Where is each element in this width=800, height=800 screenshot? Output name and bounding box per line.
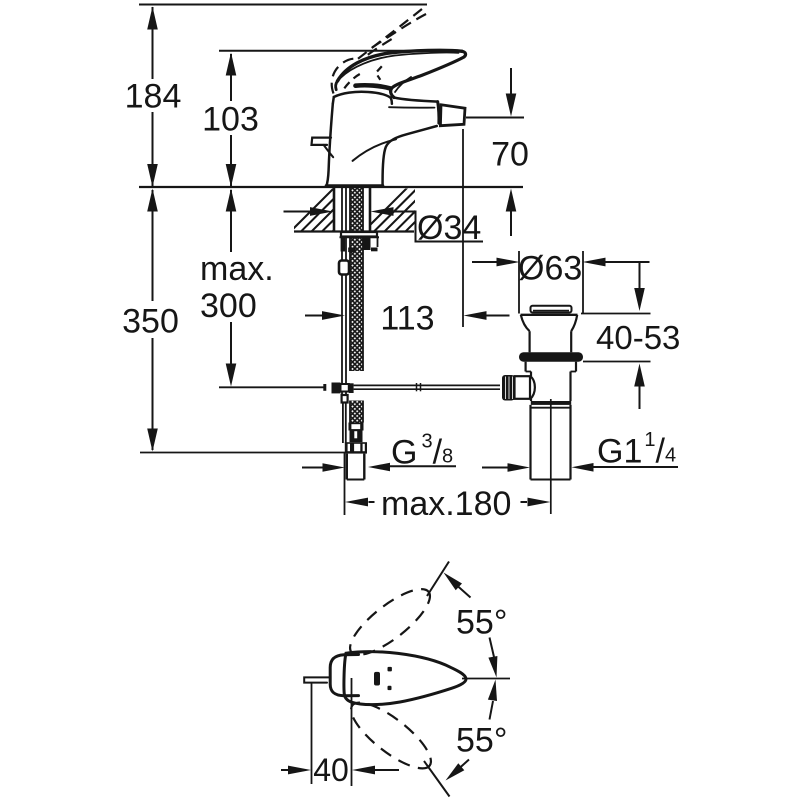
coupling black band [531, 401, 571, 405]
dim 40 left tail [281, 769, 289, 771]
dim 40-53 ref top [581, 313, 651, 315]
dashed raised handle small arc [344, 74, 360, 88]
faucet body group [312, 50, 466, 186]
dim Ø34 right tail and leader [394, 212, 484, 242]
arrow arc lower-a tip [488, 680, 497, 702]
adjuster knurled knob [502, 375, 515, 401]
dim 113 ext line [462, 129, 464, 327]
reference line spout top 103 [219, 50, 462, 52]
deck cross-section hatching left of hole [284, 186, 462, 238]
svg-text:G11/4: G11/4 [597, 429, 676, 471]
arrow 113 left-point [464, 311, 487, 320]
hose ferrule [349, 423, 364, 431]
arrow arc upper-b tip [488, 656, 497, 678]
dashed raised handle back arc [332, 59, 358, 94]
cap left side [333, 97, 334, 104]
arrow 40-53 down [634, 288, 645, 311]
dashed raised handle inner edge [368, 36, 397, 55]
dim G114 left tail [482, 467, 508, 469]
dim 40 right tail [375, 769, 399, 771]
dim 103 line lower [230, 135, 232, 187]
lever indicator dot lower [388, 686, 392, 690]
svg-text:max.: max. [200, 250, 274, 288]
arrow arc upper-a tip [444, 573, 463, 591]
arrow max300 down [226, 364, 237, 387]
svg-text:350: 350 [122, 303, 179, 341]
radial 55 line lower [424, 761, 450, 797]
svg-text:Ø34: Ø34 [417, 209, 481, 247]
below-deck faucet column [339, 188, 379, 480]
threaded shank textured [350, 188, 363, 371]
dashed swing ellipse upper [341, 579, 439, 665]
rod coupling ticks [416, 383, 418, 391]
rod left tip block [323, 384, 326, 391]
dim Ø63 left tail [472, 261, 498, 263]
lever indicator dot upper [388, 667, 392, 672]
dashed raised handle notch chevron [376, 66, 382, 80]
svg-text:40: 40 [313, 752, 349, 788]
flexible hose braided section [350, 401, 363, 423]
knob connector housing [515, 376, 531, 399]
ext line 40 right [351, 678, 353, 786]
arc segment upper-b [490, 638, 495, 658]
dim 40-53 bottom line [639, 387, 641, 410]
dimensions group [153, 7, 679, 515]
drain tube sides [529, 405, 531, 480]
arrow Ø34 right-point [310, 207, 333, 216]
arrow 70 down [506, 94, 517, 117]
coupling line [531, 407, 571, 409]
dim G38 left tail [302, 467, 323, 469]
arrow 40 left-point [352, 766, 375, 775]
deck hole left wall [333, 188, 336, 232]
dim max180 right tail [521, 501, 528, 503]
dim 350 line upper [152, 190, 154, 301]
arrow G114 left-point [572, 463, 594, 472]
handle back end [336, 81, 338, 90]
dim max300 line lower [230, 322, 232, 364]
svg-text:184: 184 [125, 78, 182, 116]
dim max300 line upper [230, 190, 232, 252]
mounting stud rod [341, 188, 343, 395]
drain tube bottom [531, 479, 571, 481]
collar below seal [524, 362, 526, 372]
dimension arrowheads [147, 7, 645, 507]
dim max180 ext left [344, 453, 346, 515]
lever indicator bar [374, 672, 380, 686]
dim Ø63 ext left [518, 251, 520, 314]
svg-text:Ø63: Ø63 [518, 250, 582, 288]
svg-text:70: 70 [491, 136, 529, 174]
arrow G38 left-point [368, 463, 390, 472]
arrow 350 down [147, 429, 158, 452]
flange right side [571, 315, 577, 331]
deck hole right wall [369, 188, 372, 232]
handle inner ridge [341, 53, 459, 78]
G3/8 hose nut [345, 442, 367, 453]
arrow Ø63 right-point [497, 258, 520, 267]
dim 113 left tail [305, 315, 323, 317]
dim 70 ref line [466, 117, 524, 119]
handle tip and underside [391, 51, 466, 97]
arc segment lower-b [459, 760, 469, 769]
pop-up waste drain valve [502, 306, 583, 514]
reference line popup rod level [219, 386, 324, 388]
arrow Ø63 left-point [583, 258, 606, 267]
arrow 103 up [226, 53, 237, 76]
cap right side [391, 98, 392, 104]
body left edge [326, 104, 333, 187]
reference line hose end [140, 452, 345, 454]
top-view lever outline [344, 652, 466, 705]
plug stem center line [550, 399, 552, 514]
dim 113 right tail [487, 315, 510, 317]
spout neck top edge [394, 98, 438, 102]
arrow 184 up [147, 7, 158, 30]
spout end face edge [438, 102, 439, 124]
locking washer [341, 232, 377, 237]
cartridge cap dome [334, 92, 391, 98]
top-view popup tab [304, 677, 330, 682]
dim 70 top line [510, 68, 512, 94]
svg-text:40-53: 40-53 [596, 319, 680, 356]
arrow G114 right-point [508, 463, 531, 472]
dim G114 right leader [594, 466, 679, 468]
flange top [521, 314, 578, 316]
arrow arc lower-b tip [446, 763, 465, 780]
svg-text:55°: 55° [456, 722, 507, 760]
aerator mousseur nozzle [440, 105, 465, 126]
handle slot shadow [356, 85, 391, 88]
dim G38 right leader [390, 465, 457, 467]
arrow max180 right-point [528, 498, 551, 507]
arrow 103 down [226, 164, 237, 187]
rod junction dark left [332, 383, 341, 394]
spout inner shadow line [389, 106, 435, 108]
arrow Ø34 left-point [371, 207, 394, 216]
arrow max300 up [226, 189, 237, 212]
arrow 184 down [147, 164, 158, 187]
stud clip [339, 261, 349, 275]
arrow 113 right-point [322, 311, 345, 320]
handle notch inner line [395, 77, 411, 92]
body base plate [326, 184, 383, 187]
svg-text:55°: 55° [456, 604, 507, 642]
dashed raised handle lower edge [358, 8, 423, 59]
arrow 40-53 up [634, 364, 645, 387]
dim Ø63 right tail [605, 261, 650, 263]
valve upper body sides [528, 331, 530, 352]
arrow 70 up [506, 189, 517, 212]
arrow max180 left-point [345, 498, 368, 507]
dim 40-53 ref bottom [583, 361, 651, 363]
spout inner junction line [353, 139, 396, 161]
rubber seal ring [519, 352, 583, 361]
reference line top (handle raised height) [139, 4, 427, 6]
handle top edge [338, 50, 463, 81]
dim 184 line upper [152, 7, 154, 79]
arc segment upper-a [457, 586, 471, 598]
flange left side [521, 315, 530, 331]
reference line deck top [139, 186, 523, 188]
centerline right [462, 678, 510, 680]
top-view escutcheon cap [330, 655, 358, 696]
arrow 350 up [147, 189, 158, 212]
dim max180 left tail [369, 501, 375, 503]
horizontal rod lower line [354, 388, 500, 390]
svg-text:113: 113 [380, 299, 434, 337]
dim Ø34 left tail [284, 211, 312, 213]
dashed raised handle [332, 8, 428, 93]
hose crimp block [350, 431, 363, 443]
horizontal rod upper line [354, 384, 500, 386]
arrow G38 right-point [323, 463, 345, 472]
svg-text:103: 103 [202, 101, 259, 139]
dim 70 bottom line [510, 211, 512, 236]
pop-up rod knob tab [312, 138, 332, 145]
dim Ø63 ext right [582, 251, 584, 313]
svg-text:300: 300 [200, 287, 257, 325]
svg-text:max.180: max.180 [381, 485, 511, 523]
rod junction dark right [349, 383, 354, 393]
hose tail tube [346, 454, 348, 480]
locking nut [340, 236, 380, 238]
dashed swing ellipse lower [342, 692, 440, 778]
rod junction clamp [341, 384, 349, 392]
spout underside and body right edge [383, 126, 437, 187]
arc segment lower-a [490, 701, 494, 720]
radial 55 line upper [427, 562, 449, 597]
stud lower rod [342, 395, 348, 403]
pop-up rod linkage [323, 383, 500, 394]
dim 103 line upper [230, 54, 232, 101]
dim 184 line lower [152, 112, 154, 187]
arrow 40 right-point [288, 766, 311, 775]
dashed raised handle upper edge [372, 13, 428, 48]
deck bottom line [294, 230, 414, 232]
ext line 40 left [311, 683, 313, 784]
connector housing arc [530, 376, 535, 399]
plug cap [531, 306, 572, 313]
dimension texts [122, 78, 680, 524]
pop-up rod diagonal [324, 145, 334, 157]
body tube upper [530, 372, 532, 377]
dim 350 line lower [152, 338, 154, 450]
dim 40-53 top line [639, 262, 641, 289]
